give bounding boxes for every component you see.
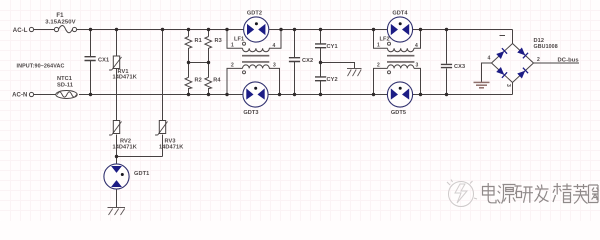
capacitor CX1 [85,57,110,64]
capacitor CX3 [441,64,465,70]
char 电 [483,183,497,203]
diode bridge top-right [517,47,528,58]
gas discharge tube GDT4 [387,11,412,43]
wire CX1 branch [90,30,92,95]
svg-text:R2: R2 [195,77,202,83]
fuse F1 [45,13,76,33]
node junction dots [89,28,448,158]
varistor RV3 14D471K [155,121,183,151]
svg-text:14D471K: 14D471K [159,144,183,150]
svg-text:GDT5: GDT5 [391,110,406,116]
core LF1 [242,56,269,62]
capacitor CY1 [315,44,338,50]
svg-text:AC-N: AC-N [12,93,27,99]
gas discharge tube GDT5 [387,82,412,116]
char 圈 [589,185,599,203]
svg-text:GBU1008: GBU1008 [534,44,558,50]
wire bridge pin4 lead to power ground [482,63,492,82]
wire LF1 pin1 lead [227,30,243,49]
svg-text:GDT4: GDT4 [392,11,408,17]
wire RV1-RV2 column [116,30,118,157]
varistor RV2 14D471K [109,121,137,151]
svg-text:R1: R1 [195,38,202,44]
svg-text:CY1: CY1 [327,44,338,50]
wire CX3 branch [446,30,448,95]
svg-text:2: 2 [537,57,540,63]
svg-text:3.15A250V: 3.15A250V [45,19,75,25]
svg-text:LF2: LF2 [380,37,390,43]
wire AC-N terminal to NTC [34,94,57,96]
watermark text 电源研发精英圈 [483,183,599,204]
svg-text:SD-11: SD-11 [57,83,73,89]
wire bridge pin3 vertical lead [512,83,514,95]
svg-text:14D471K: 14D471K [113,144,137,150]
wire AC-L terminal to fuse [34,29,55,31]
diode bridge bottom-left [496,67,507,78]
diode bridge bottom-right [517,68,528,79]
wire bridge pin1 vertical lead [512,30,514,44]
winding LF2 top [387,48,413,52]
svg-text:1: 1 [377,43,380,49]
wire bridge pin2 lead DC-bus [534,62,580,64]
svg-text:F1: F1 [56,13,64,19]
wire top rail GDT2 to GDT4 [269,29,387,31]
thermistor NTC1 SD-11 [56,76,77,99]
bridge rectifier D12 GBU1008 [488,36,558,88]
resistor R1 [185,37,202,49]
wire bottom rail GDT3 to GDT5 [268,94,387,96]
svg-text:2: 2 [377,63,380,69]
gas discharge tube GDT2 [244,11,269,43]
char 英 [573,184,588,204]
winding LF2 bottom [387,65,413,69]
pin 1 label (rotated) bridge top [500,35,506,37]
winding LF1 bottom [243,65,270,69]
char 发 [535,185,549,203]
svg-text:NTC1: NTC1 [57,76,72,82]
svg-text:D12: D12 [534,38,545,44]
wire CX2 branch [294,30,296,95]
svg-text:CX2: CX2 [302,58,313,64]
char 源 [498,185,516,204]
wire LF2 pin2 lead [374,68,388,94]
svg-text:DC-bus: DC-bus [558,57,579,63]
ground earth (GDT1) [108,208,126,216]
wire LF2 pin3 lead [414,68,421,94]
svg-text:R4: R4 [213,77,221,83]
wire RV3 column [162,30,164,157]
wire top rail AC-L from fuse to GDT2 [77,29,244,31]
watermark logo icon [447,180,477,207]
power ground (bridge pin 4) [474,82,490,87]
svg-text:GDT1: GDT1 [134,171,149,177]
gas discharge tube GDT3 [243,82,268,116]
char 精 [553,183,572,203]
capacitor CX2 [289,58,313,64]
core LF2 [387,56,414,62]
wire R1 column [188,30,190,95]
svg-text:4: 4 [273,43,276,49]
varistor RV1 14D471K [109,56,137,81]
common-mode choke LF2 [377,37,419,74]
char 研 [515,186,534,203]
wire LF1 pin3 lead [269,68,280,94]
wire RV2-RV3 bottom tie [117,156,163,158]
wire CY2 branch [320,81,322,95]
svg-text:1: 1 [231,43,234,49]
svg-text:3: 3 [416,63,419,69]
wire GDT1 to earth [116,189,118,208]
resistor R4 [205,77,222,89]
gas discharge tube GDT1 [104,164,149,189]
resistor R2 [185,77,202,89]
svg-text:CY2: CY2 [327,77,338,83]
wire GDT1 top lead [116,157,118,165]
wire LF1 pin4 lead [269,30,281,49]
svg-text:GDT2: GDT2 [247,11,262,17]
svg-text:CX3: CX3 [454,64,465,70]
wire LF1 pin2 lead [227,68,243,94]
svg-text:4: 4 [415,43,418,49]
capacitor CY2 [315,77,338,83]
node AC-L terminal [13,27,34,34]
wire bottom rail GDT5 to bridge [413,94,513,96]
wire R3 column [208,30,210,95]
svg-text:4: 4 [488,56,491,62]
svg-text:AC-L: AC-L [13,28,28,34]
winding LF1 top [243,48,270,52]
svg-text:GDT3: GDT3 [243,110,258,116]
wire top rail GDT4 to bridge [413,29,513,31]
diode bridge top-left [496,48,507,59]
wire CY midpoint to earth [321,63,355,69]
wire CY1 branch [320,30,322,77]
svg-text:R3: R3 [215,38,222,44]
wire LF2 pin4 lead [414,30,421,49]
ground earth (CY midpoint) [347,69,362,77]
svg-text:INPUT:90~264VAC: INPUT:90~264VAC [17,64,65,70]
wire R1R3-R2R4 tie [189,62,209,64]
svg-text:3: 3 [505,84,511,87]
svg-text:CX1: CX1 [98,58,109,64]
resistor R3 [205,37,222,49]
node AC-N terminal [12,92,34,98]
common-mode choke LF1 [231,37,276,74]
svg-text:LF1: LF1 [234,37,244,43]
svg-text:3: 3 [273,63,276,69]
svg-text:2: 2 [231,63,234,69]
svg-text:14D471K: 14D471K [113,75,137,81]
wire bottom rail AC-N from NTC to GDT3 [79,94,243,96]
wire LF2 pin1 lead [374,30,388,49]
